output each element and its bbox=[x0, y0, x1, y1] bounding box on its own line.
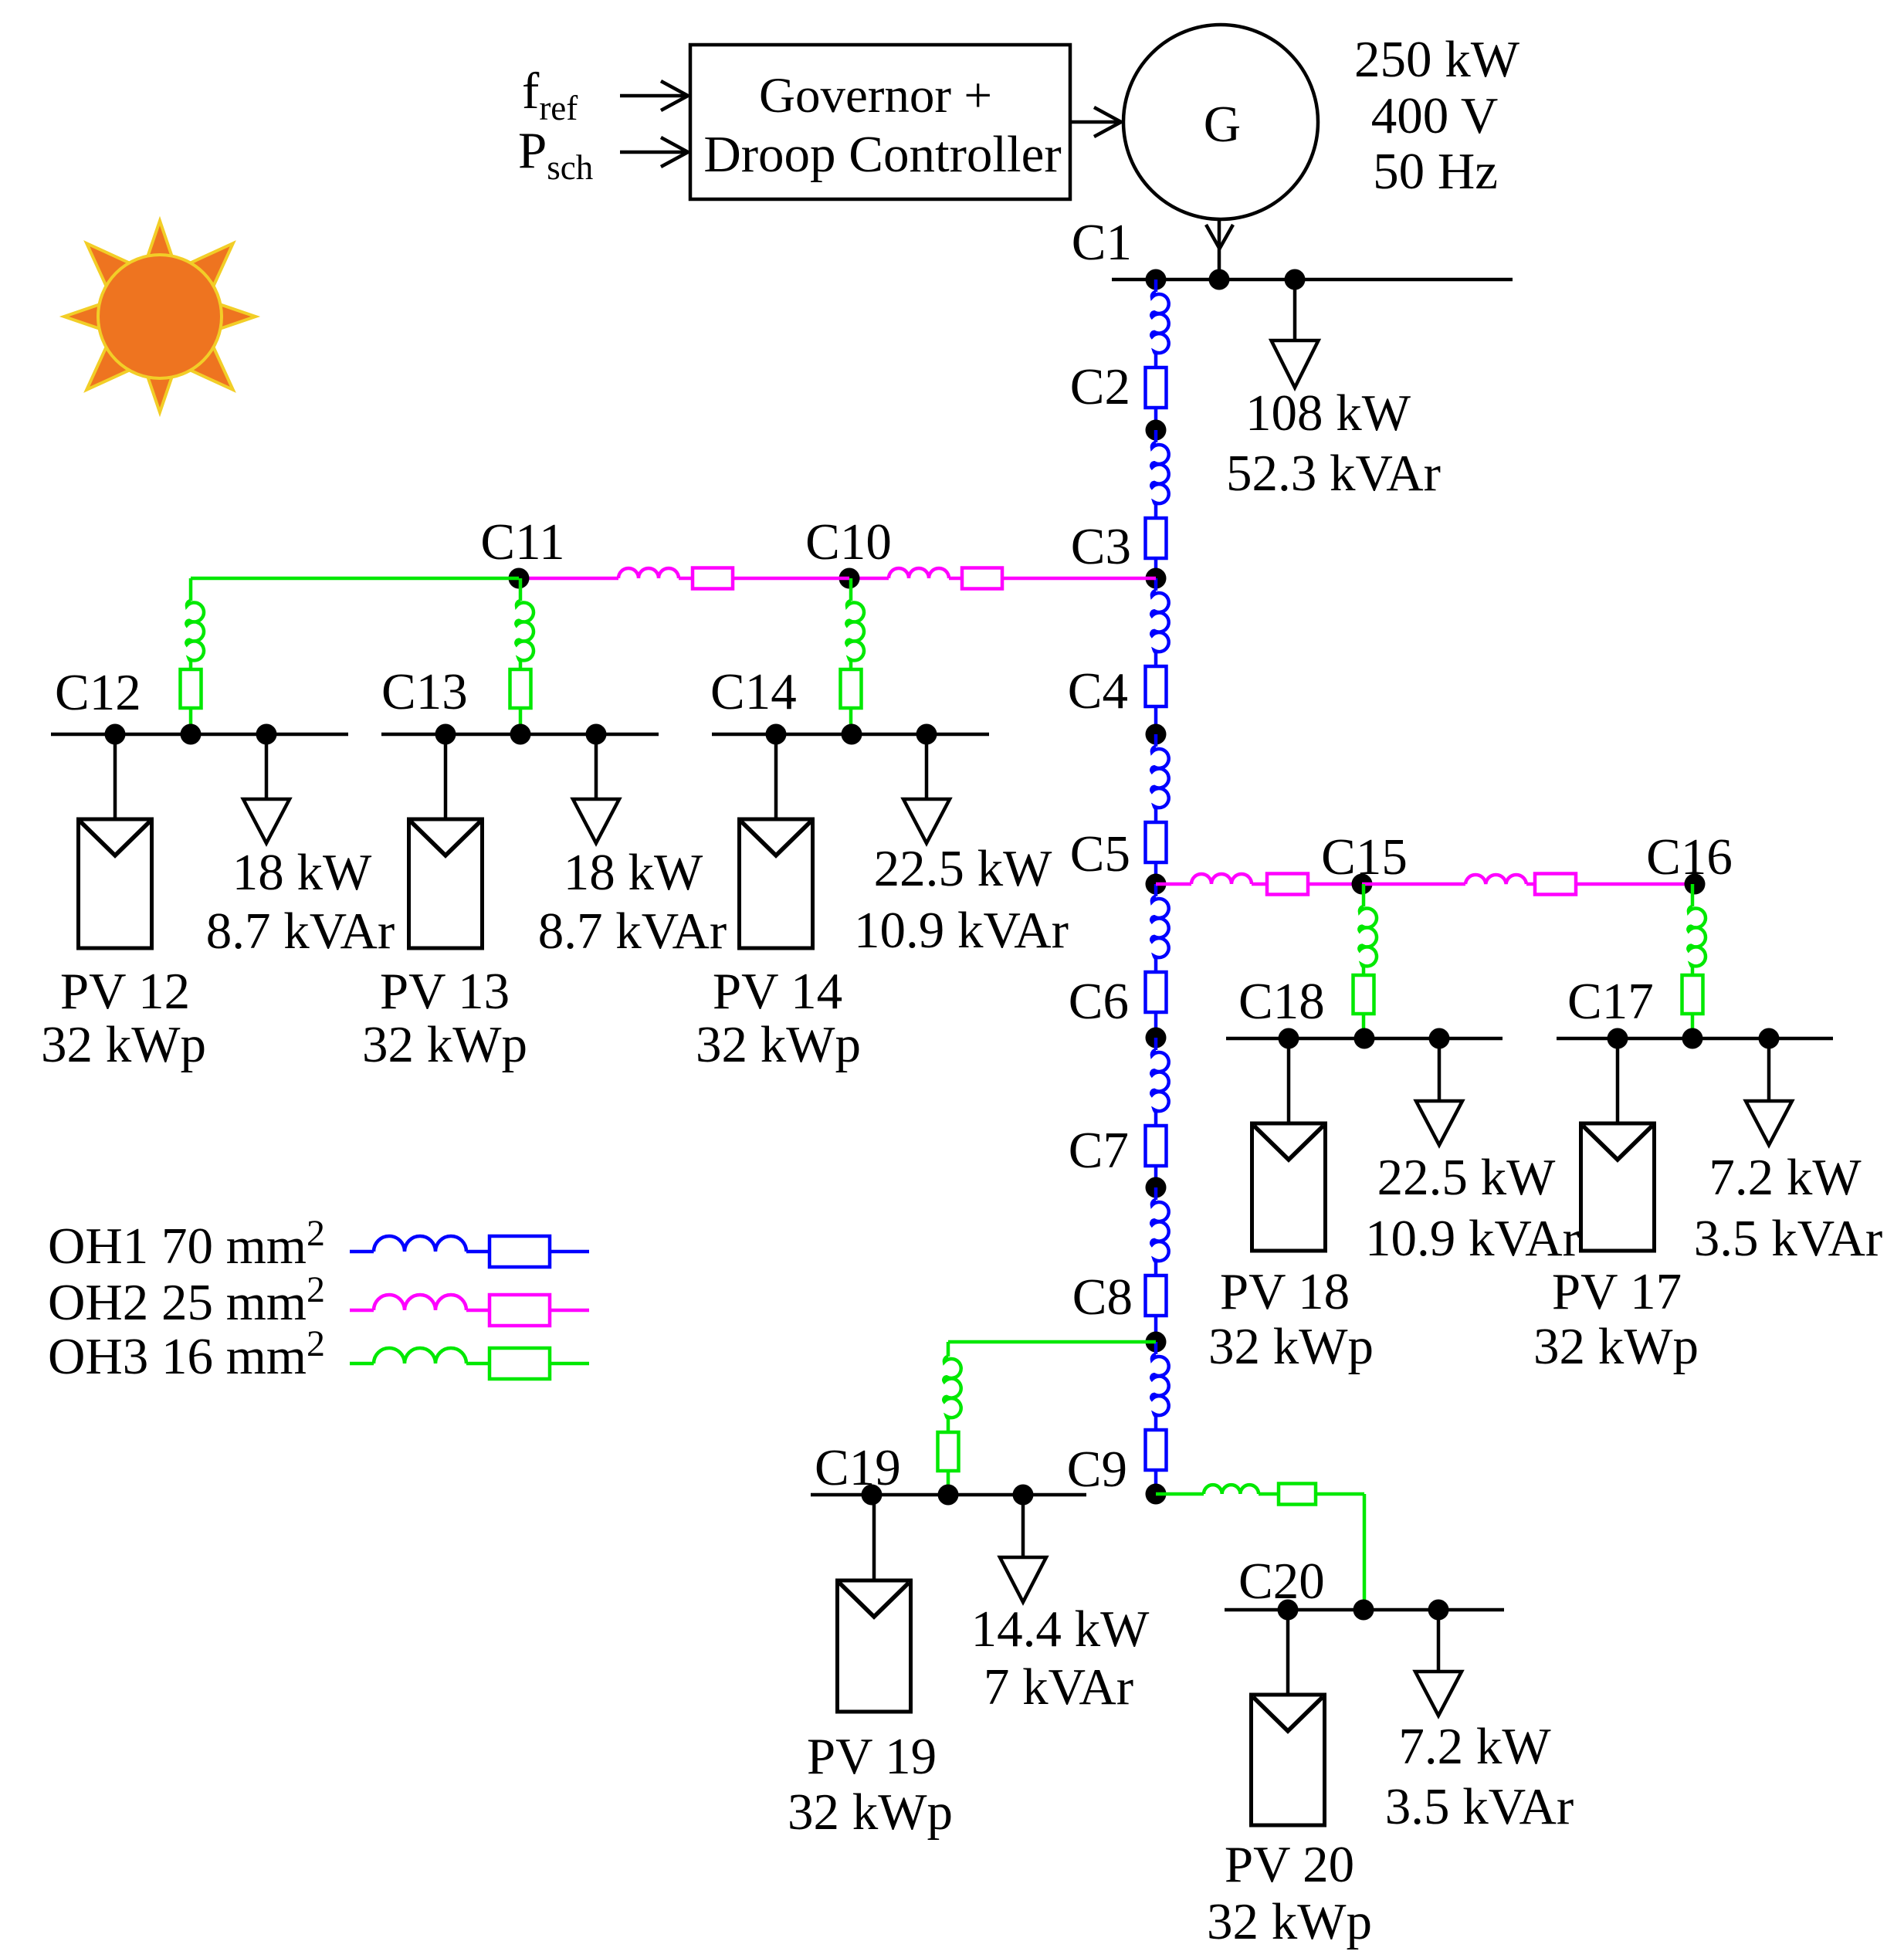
bus C19 bbox=[811, 1493, 1086, 1497]
svg-text:22.5 kW: 22.5 kW bbox=[874, 840, 1053, 897]
svg-text:C18: C18 bbox=[1238, 973, 1325, 1030]
load at bus (x=1864) bbox=[1416, 1038, 1462, 1145]
load at bus (x=2291) bbox=[1746, 1038, 1792, 1145]
line segment C10 to bus C14 (OH3) bbox=[841, 578, 864, 734]
svg-text:C6: C6 bbox=[1069, 973, 1129, 1030]
svg-text:32 kWp: 32 kWp bbox=[41, 1016, 206, 1073]
junction on C18 at PV bbox=[1279, 1028, 1299, 1049]
solar PV unit PV 12 bbox=[79, 734, 152, 948]
svg-text:PV 19: PV 19 bbox=[807, 1728, 937, 1785]
svg-text:C20: C20 bbox=[1238, 1553, 1325, 1610]
load at bus (x=772) bbox=[573, 734, 619, 843]
load value label bbox=[1365, 1149, 1580, 1267]
svg-text:7 kVAr: 7 kVAr bbox=[984, 1658, 1133, 1716]
svg-text:32 kWp: 32 kWp bbox=[696, 1016, 861, 1073]
legend entry OH2 line symbol bbox=[350, 1295, 589, 1326]
junction on C12 at PV bbox=[105, 724, 126, 745]
svg-text:14.4 kW: 14.4 kW bbox=[971, 1601, 1150, 1658]
solar PV unit PV 14 bbox=[740, 734, 813, 948]
line segment C8-C9 (OH1) bbox=[1146, 1342, 1169, 1494]
junction on C19 at feed bbox=[938, 1485, 959, 1506]
load at bus (x=1200) bbox=[903, 734, 950, 843]
bus C13 bbox=[381, 733, 659, 737]
svg-text:C14: C14 bbox=[710, 663, 797, 720]
load at C1 bbox=[1272, 279, 1319, 388]
junction on C20 at feed bbox=[1353, 1600, 1374, 1621]
svg-text:C13: C13 bbox=[381, 663, 468, 720]
line segment C5-C6 (OH1) bbox=[1146, 884, 1169, 1038]
legend entry OH1 line symbol bbox=[350, 1236, 589, 1267]
junction on C19 at PV bbox=[862, 1485, 883, 1506]
svg-text:7.2 kW: 7.2 kW bbox=[1398, 1718, 1551, 1775]
node C7 junction bbox=[1146, 1177, 1167, 1198]
svg-text:Governor +: Governor + bbox=[759, 68, 992, 124]
wire arrow controller to generator bbox=[1070, 107, 1121, 137]
junction on C13 at PV bbox=[435, 724, 456, 745]
PV 18 label bbox=[1208, 1263, 1374, 1375]
wire arrow f_ref into controller bbox=[620, 81, 688, 110]
line segment C9-C20 (OH3) bbox=[1156, 1484, 1364, 1611]
svg-text:C2: C2 bbox=[1070, 358, 1130, 415]
line segment to bus C12 (OH3) bbox=[181, 578, 204, 734]
svg-text:C7: C7 bbox=[1069, 1122, 1129, 1179]
node C10 junction bbox=[839, 568, 860, 589]
line segment C3-C10 (OH2) bbox=[849, 568, 1156, 589]
wire arrow P_sch into controller bbox=[620, 137, 688, 167]
load at bus C19 bbox=[1000, 1495, 1046, 1602]
junction on C20 at PV bbox=[1278, 1600, 1299, 1621]
node C4 junction bbox=[1146, 724, 1167, 745]
bus C17 bbox=[1557, 1037, 1833, 1041]
svg-text:OH3 16 mm2: OH3 16 mm2 bbox=[48, 1323, 325, 1385]
svg-text:50 Hz: 50 Hz bbox=[1373, 143, 1498, 200]
PV 12 label bbox=[41, 963, 206, 1073]
svg-text:400 V: 400 V bbox=[1371, 87, 1498, 144]
load C1 value label bbox=[1226, 384, 1441, 502]
solar PV unit PV 13 bbox=[409, 734, 483, 948]
bus C18 bbox=[1226, 1037, 1503, 1041]
node C9 junction bbox=[1146, 1484, 1167, 1505]
junction on C12 at feed bbox=[181, 724, 202, 745]
svg-text:52.3 kVAr: 52.3 kVAr bbox=[1226, 445, 1441, 502]
svg-text:32 kWp: 32 kWp bbox=[1533, 1318, 1699, 1375]
svg-text:22.5 kW: 22.5 kW bbox=[1377, 1149, 1557, 1206]
svg-text:Droop Controller: Droop Controller bbox=[703, 126, 1061, 183]
svg-text:C5: C5 bbox=[1070, 825, 1130, 882]
generator G bbox=[1123, 25, 1318, 219]
load value label bbox=[854, 840, 1069, 959]
svg-text:C17: C17 bbox=[1567, 973, 1654, 1030]
PV 14 label bbox=[696, 963, 861, 1073]
controller block Governor + Droop Controller bbox=[690, 45, 1070, 199]
svg-text:8.7 kVAr: 8.7 kVAr bbox=[206, 903, 395, 960]
node C8 junction bbox=[1146, 1332, 1167, 1353]
svg-text:PV 20: PV 20 bbox=[1225, 1836, 1354, 1893]
svg-text:PV 18: PV 18 bbox=[1220, 1263, 1350, 1320]
svg-text:250 kW: 250 kW bbox=[1354, 31, 1520, 88]
line segment C15 to bus C18 (OH3) bbox=[1353, 884, 1377, 1038]
load value label bbox=[1694, 1149, 1882, 1267]
node C11 junction bbox=[509, 568, 530, 589]
bus C14 bbox=[712, 733, 989, 737]
junction on C13 at load bbox=[586, 724, 607, 745]
junction on C12 at load bbox=[256, 724, 277, 745]
svg-text:32 kWp: 32 kWp bbox=[1208, 1318, 1374, 1375]
wire arrow generator to bus C1 bbox=[1206, 219, 1233, 278]
svg-text:3.5 kVAr: 3.5 kVAr bbox=[1385, 1778, 1574, 1835]
svg-text:10.9 kVAr: 10.9 kVAr bbox=[854, 902, 1069, 959]
line segment C7-C8 (OH1) bbox=[1146, 1187, 1169, 1342]
svg-text:18 kW: 18 kW bbox=[232, 844, 372, 901]
load at bus (x=345) bbox=[243, 734, 290, 843]
line segment C15-C16 (OH2) bbox=[1362, 874, 1695, 895]
junction on C14 at load bbox=[916, 724, 937, 745]
svg-text:32 kWp: 32 kWp bbox=[362, 1016, 527, 1073]
svg-text:32 kWp: 32 kWp bbox=[1207, 1893, 1372, 1950]
solar PV unit PV 18 bbox=[1252, 1038, 1326, 1251]
bus C12 bbox=[51, 733, 348, 737]
svg-text:C9: C9 bbox=[1067, 1441, 1127, 1498]
junction on C19 at load bbox=[1013, 1485, 1034, 1506]
line segment C1-C2 (OH1) bbox=[1146, 279, 1169, 430]
load at bus C20 bbox=[1415, 1610, 1462, 1716]
PV 20 label bbox=[1207, 1836, 1372, 1950]
bus C20 bbox=[1225, 1608, 1504, 1612]
svg-text:3.5 kVAr: 3.5 kVAr bbox=[1694, 1210, 1882, 1267]
svg-text:C3: C3 bbox=[1071, 518, 1131, 575]
svg-text:OH2 25 mm2: OH2 25 mm2 bbox=[48, 1269, 325, 1331]
line segment C11 to bus C13 (OH3) bbox=[510, 578, 534, 734]
wire C11 to C12 drop (OH3) bbox=[191, 577, 519, 581]
svg-text:PV 14: PV 14 bbox=[713, 963, 842, 1020]
svg-text:C11: C11 bbox=[480, 513, 564, 571]
junction on C17 at feed bbox=[1682, 1028, 1703, 1049]
generator ratings label 250 kW 400 V 50 Hz bbox=[1354, 31, 1520, 200]
node C5 junction bbox=[1146, 874, 1167, 895]
junction on C20 at load bbox=[1428, 1600, 1449, 1621]
solar PV unit PV 17 bbox=[1581, 1038, 1655, 1251]
svg-text:PV 17: PV 17 bbox=[1552, 1263, 1682, 1320]
junction on C1 at generator bbox=[1209, 269, 1230, 290]
load value label bbox=[206, 844, 395, 960]
junction on C1 at feeder bbox=[1146, 269, 1167, 290]
sun icon bbox=[64, 221, 256, 412]
svg-text:C8: C8 bbox=[1072, 1269, 1133, 1326]
load C19 value label bbox=[971, 1601, 1150, 1716]
svg-text:C4: C4 bbox=[1068, 662, 1128, 720]
svg-text:10.9 kVAr: 10.9 kVAr bbox=[1365, 1210, 1580, 1267]
node C15 junction bbox=[1352, 874, 1373, 895]
junction on C13 at feed bbox=[510, 724, 531, 745]
PV 17 label bbox=[1533, 1263, 1699, 1375]
junction on C1 at load bbox=[1285, 269, 1306, 290]
svg-text:OH1 70 mm2: OH1 70 mm2 bbox=[48, 1213, 325, 1275]
svg-text:32 kWp: 32 kWp bbox=[788, 1784, 953, 1841]
svg-text:C19: C19 bbox=[815, 1439, 901, 1496]
PV 19 label bbox=[788, 1728, 953, 1841]
svg-text:C12: C12 bbox=[55, 664, 141, 721]
svg-text:PV 12: PV 12 bbox=[60, 963, 190, 1020]
bus C1 bbox=[1112, 278, 1513, 282]
svg-text:108 kW: 108 kW bbox=[1245, 384, 1411, 442]
svg-text:C1: C1 bbox=[1072, 214, 1132, 271]
solar PV unit PV 19 bbox=[838, 1495, 911, 1712]
legend entry OH3 line symbol bbox=[350, 1348, 589, 1379]
junction on C17 at PV bbox=[1608, 1028, 1628, 1049]
line segment C6-C7 (OH1) bbox=[1146, 1038, 1169, 1187]
line segment C16 to bus C17 (OH3) bbox=[1682, 884, 1706, 1038]
svg-text:7.2 kW: 7.2 kW bbox=[1709, 1149, 1862, 1206]
PV 13 label bbox=[362, 963, 527, 1073]
line segment C5-C15 (OH2) bbox=[1156, 874, 1362, 895]
line segment C10-C11 (OH2) bbox=[519, 568, 849, 589]
junction on C14 at PV bbox=[766, 724, 787, 745]
svg-text:8.7 kVAr: 8.7 kVAr bbox=[538, 903, 727, 960]
load value label bbox=[538, 844, 727, 960]
node C6 junction bbox=[1146, 1028, 1167, 1048]
junction on C18 at feed bbox=[1354, 1028, 1375, 1049]
svg-text:C10: C10 bbox=[805, 513, 892, 571]
node C3 junction bbox=[1146, 568, 1167, 589]
line segment C3-C4 (OH1) bbox=[1146, 578, 1169, 734]
line segment C8-C19 (OH3) bbox=[938, 1342, 1157, 1495]
svg-text:G: G bbox=[1204, 96, 1241, 153]
svg-text:18 kW: 18 kW bbox=[564, 844, 703, 901]
node C16 junction bbox=[1685, 874, 1706, 895]
svg-text:PV 13: PV 13 bbox=[380, 963, 510, 1020]
junction on C18 at load bbox=[1429, 1028, 1450, 1049]
line segment C2-C3 (OH1) bbox=[1146, 430, 1169, 578]
junction on C14 at feed bbox=[842, 724, 862, 745]
node C2 junction bbox=[1146, 420, 1167, 441]
junction on C17 at load bbox=[1759, 1028, 1780, 1049]
line segment C4-C5 (OH1) bbox=[1146, 734, 1169, 884]
solar PV unit PV 20 bbox=[1252, 1610, 1325, 1825]
load C20 value label bbox=[1385, 1718, 1574, 1835]
